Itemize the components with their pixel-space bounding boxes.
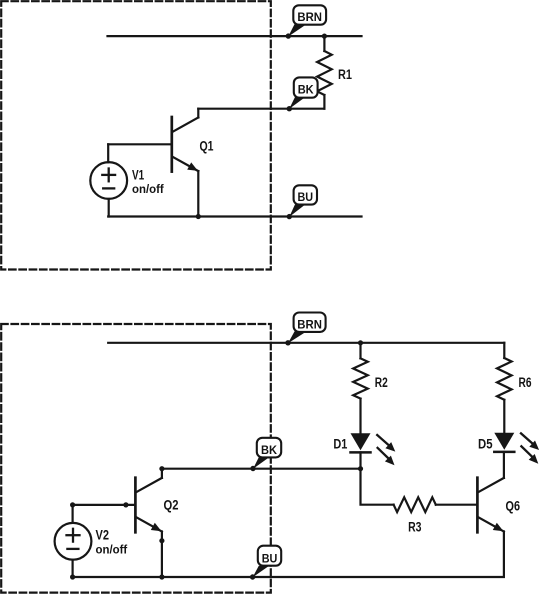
LED D1 [351,433,371,469]
resistor R1 [317,36,332,109]
svg-text:BRN: BRN [297,11,322,24]
wire BK net 2 [162,468,361,470]
transistor Q6 [477,452,504,532]
resistor R2 [353,343,368,433]
svg-text:D5: D5 [478,436,493,451]
LED D5 [494,433,514,452]
net label BRN (circuit 1) [286,5,327,39]
LED D1 light arrows [377,435,395,465]
svg-text:Q2: Q2 [164,498,179,513]
resistor R6 [497,343,512,433]
wire D1 to R3 [361,469,394,505]
wire BRN net 2 (top) [108,342,504,344]
voltage source V1 on/off [90,144,127,216]
junction R1/BRN wire [322,34,327,39]
svg-text:D1: D1 [333,437,347,452]
svg-text:BK: BK [261,444,278,457]
wire BU net (bottom) [108,215,361,217]
svg-text:V1: V1 [132,168,145,183]
junction V2 bottom corner [70,574,75,579]
transistor Q1 [108,109,198,172]
junction emitter/BU wire [196,214,201,219]
dashed enclosure box 1 [1,1,271,269]
svg-text:R2: R2 [375,375,388,390]
net label BRN (circuit 2) [285,313,325,346]
svg-text:BK: BK [298,84,315,97]
svg-text:R6: R6 [519,375,532,390]
LED D5 light arrows [521,433,539,463]
junction Q2 emitter/BU wire [159,574,164,579]
voltage source V2 on/off [55,505,92,577]
wire BK net (collector) [198,108,324,110]
net label BK (circuit 1) [287,77,318,111]
svg-text:BU: BU [262,552,278,565]
svg-text:R1: R1 [338,67,352,82]
svg-text:Q6: Q6 [506,498,521,513]
svg-text:R3: R3 [408,520,421,535]
wire Q2 emitter to BU net [161,541,163,577]
junction D1/BK wire [358,466,363,471]
wire V2 to Q2 base [73,504,136,506]
wire Q6 emitter to BU net [73,532,504,578]
net label BU (circuit 1) [287,185,317,219]
svg-text:BRN: BRN [297,319,322,332]
junction Q2 emitter pin [159,538,164,543]
junction Q2 base pin [123,502,128,507]
wire Q1 emitter to BU net [197,171,199,216]
svg-text:Q1: Q1 [200,138,214,153]
svg-text:V2: V2 [96,528,110,543]
wire BRN net (top) [108,35,362,37]
transistor Q2 [135,469,162,541]
svg-text:on/off: on/off [132,182,165,196]
resistor R3 [394,497,478,512]
dashed enclosure box 2 [1,324,271,593]
net label BU (circuit 2) [250,546,281,580]
svg-text:BU: BU [298,191,314,204]
junction R2/BRN wire [358,340,363,345]
junction V2 top corner [70,502,75,507]
net label BK (circuit 2) [250,438,281,471]
svg-text:on/off: on/off [96,542,129,556]
junction Q2 collector pin [159,466,164,471]
